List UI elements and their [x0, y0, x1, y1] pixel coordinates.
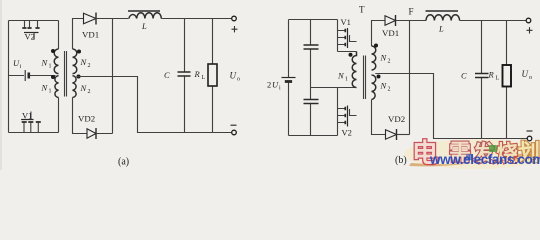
- label Uo (a): [230, 71, 241, 83]
- svg-text:V2: V2: [342, 128, 352, 138]
- wire: junction column (b): [409, 21, 411, 135]
- wire: battery branch: [288, 20, 290, 136]
- label N1 upper: [41, 58, 52, 70]
- node dot secondary upper (b): [374, 44, 378, 48]
- transformer T1 secondary winding N2 upper: [73, 49, 77, 74]
- resistor RL (b): [488, 65, 512, 87]
- node dot primary upper: [51, 49, 55, 53]
- diode VD2 (b): [386, 114, 406, 140]
- wire: secondary top lead to VD1: [73, 19, 85, 50]
- inductor L core bar (b): [426, 10, 459, 12]
- wire: battery to centre tap: [9, 75, 56, 77]
- transformer T1 core: [65, 51, 67, 97]
- label N1 (b): [337, 71, 348, 83]
- transformer T secondary winding N2 lower (b): [372, 75, 376, 100]
- svg-text:V2: V2: [25, 32, 35, 42]
- resistor RL: [194, 64, 218, 86]
- watermark swoosh: [409, 149, 539, 166]
- wire: centre tap (b) to minus rail: [375, 74, 527, 139]
- svg-text:www.elecfans.com: www.elecfans.com: [429, 152, 540, 167]
- svg-text:VD1: VD1: [382, 28, 399, 38]
- transformer T primary winding N1: [352, 52, 356, 88]
- svg-text:C: C: [461, 71, 467, 81]
- svg-text:T: T: [359, 5, 365, 15]
- svg-text:R: R: [194, 69, 201, 79]
- svg-text:o: o: [529, 75, 532, 81]
- svg-text:o: o: [237, 77, 240, 83]
- capacitor C: [164, 70, 191, 80]
- wire: divider midpoint to primary bottom node: [311, 87, 357, 89]
- svg-text:(b): (b): [395, 155, 407, 166]
- svg-text:2: 2: [388, 87, 391, 93]
- svg-text:2: 2: [388, 59, 391, 65]
- node dot secondary lower: [77, 75, 81, 79]
- wire: junction column VD1/VD2: [112, 19, 114, 134]
- wire: bottom rail primary loop: [289, 135, 338, 137]
- wire: left vertical of primary loop: [8, 21, 10, 133]
- terminal - (b): [527, 131, 533, 141]
- svg-text:U: U: [522, 69, 529, 79]
- transformer T1 secondary winding N2 lower: [73, 76, 77, 98]
- transistor V1 (upper switch): [338, 17, 357, 52]
- wire: secondary bottom lead to VD2: [73, 98, 88, 134]
- svg-text:1: 1: [49, 89, 52, 95]
- inductor L core bar: [128, 10, 160, 12]
- svg-text:L: L: [141, 21, 147, 31]
- transformer T secondary winding N2 upper (b): [372, 46, 376, 70]
- svg-text:U: U: [230, 71, 237, 81]
- transistor V2 (lower switch): [338, 88, 357, 138]
- watermark accent green: [489, 145, 497, 152]
- battery 2Ui: [267, 78, 296, 92]
- wire: resistor RL branch (b): [506, 21, 508, 139]
- svg-text:V1: V1: [341, 17, 351, 27]
- node dot secondary upper: [77, 50, 81, 54]
- wire: VD2 cathode to junction column (b): [397, 134, 410, 136]
- svg-text:R: R: [488, 70, 495, 80]
- svg-text:L: L: [496, 76, 500, 82]
- svg-text:L: L: [438, 24, 444, 34]
- wire: inductor to + terminal (b): [460, 20, 527, 22]
- wire: resistor RL branch: [212, 19, 214, 133]
- capacitor C1 (upper divider): [304, 45, 319, 49]
- wire: VD1 to junction (b): [396, 20, 427, 22]
- svg-text:VD2: VD2: [388, 114, 405, 124]
- wire: secondary top lead to VD1 (b): [372, 21, 386, 47]
- wire: capacitor C branch: [184, 19, 186, 133]
- svg-text:C: C: [164, 70, 170, 80]
- left edge shade: [0, 0, 2, 170]
- wire: capacitor C branch (b): [481, 21, 483, 139]
- diode VD1 (b): [382, 15, 399, 38]
- node dot primary lower: [51, 75, 55, 79]
- transformer T1 primary winding N1 lower: [55, 76, 59, 98]
- svg-text:U: U: [272, 80, 279, 90]
- svg-text:2: 2: [88, 89, 91, 95]
- wire: secondary bottom lead to VD2 (b): [372, 100, 386, 135]
- watermark text 电子发烧友: [412, 138, 540, 168]
- label N2 lower: [80, 83, 91, 95]
- svg-text:L: L: [202, 75, 206, 81]
- wire: inductor to + terminal: [161, 18, 232, 20]
- terminal - (a): [231, 125, 237, 135]
- inductor L winding: [129, 13, 161, 19]
- wire: capacitor divider branch: [310, 20, 312, 136]
- terminal + (a): [232, 16, 238, 32]
- svg-text:F: F: [409, 7, 414, 17]
- svg-text:2: 2: [88, 63, 91, 69]
- transformer T core: [364, 56, 366, 100]
- watermark accent blue: [466, 154, 472, 160]
- wire: primary loop top: [9, 20, 59, 22]
- label N2 lower (b): [380, 81, 391, 93]
- wire: top rail left section: [289, 19, 338, 21]
- wire: primary loop bottom: [9, 132, 59, 134]
- diode VD1: [82, 13, 99, 40]
- label N2 upper: [80, 57, 91, 69]
- transformer T1 primary winding N1 upper: [54, 49, 58, 74]
- transistor V2 (switch, top): [22, 21, 39, 42]
- label Uo (b): [522, 69, 533, 81]
- node dot secondary lower (b): [377, 75, 381, 79]
- wire: VD1 cathode to junction: [96, 18, 129, 20]
- diode VD2: [78, 114, 96, 140]
- svg-text:1: 1: [49, 64, 52, 70]
- battery Ui: [13, 58, 29, 81]
- label N2 upper (b): [380, 53, 391, 65]
- svg-text:V1: V1: [22, 111, 32, 121]
- wire: centre tap to output minus rail: [76, 77, 232, 133]
- label N1 lower: [41, 83, 52, 95]
- wire: VD2 cathode to junction column: [96, 133, 113, 135]
- svg-text:2: 2: [267, 80, 271, 90]
- capacitor C (b): [461, 71, 489, 81]
- node dot primary (b): [349, 53, 353, 57]
- wire: primary bottom lead: [58, 98, 60, 133]
- svg-text:(a): (a): [118, 157, 129, 168]
- transistor V1 (switch, bottom): [21, 111, 41, 133]
- wire: V1 source to primary top: [338, 51, 357, 53]
- svg-text:1: 1: [345, 77, 348, 83]
- capacitor C2 (lower divider): [304, 100, 319, 104]
- svg-text:VD2: VD2: [78, 114, 95, 124]
- wire: primary top lead: [58, 21, 60, 50]
- inductor L winding (b): [426, 15, 460, 21]
- watermark glow: [404, 139, 540, 169]
- terminal + (b): [526, 18, 532, 33]
- svg-text:VD1: VD1: [82, 30, 99, 40]
